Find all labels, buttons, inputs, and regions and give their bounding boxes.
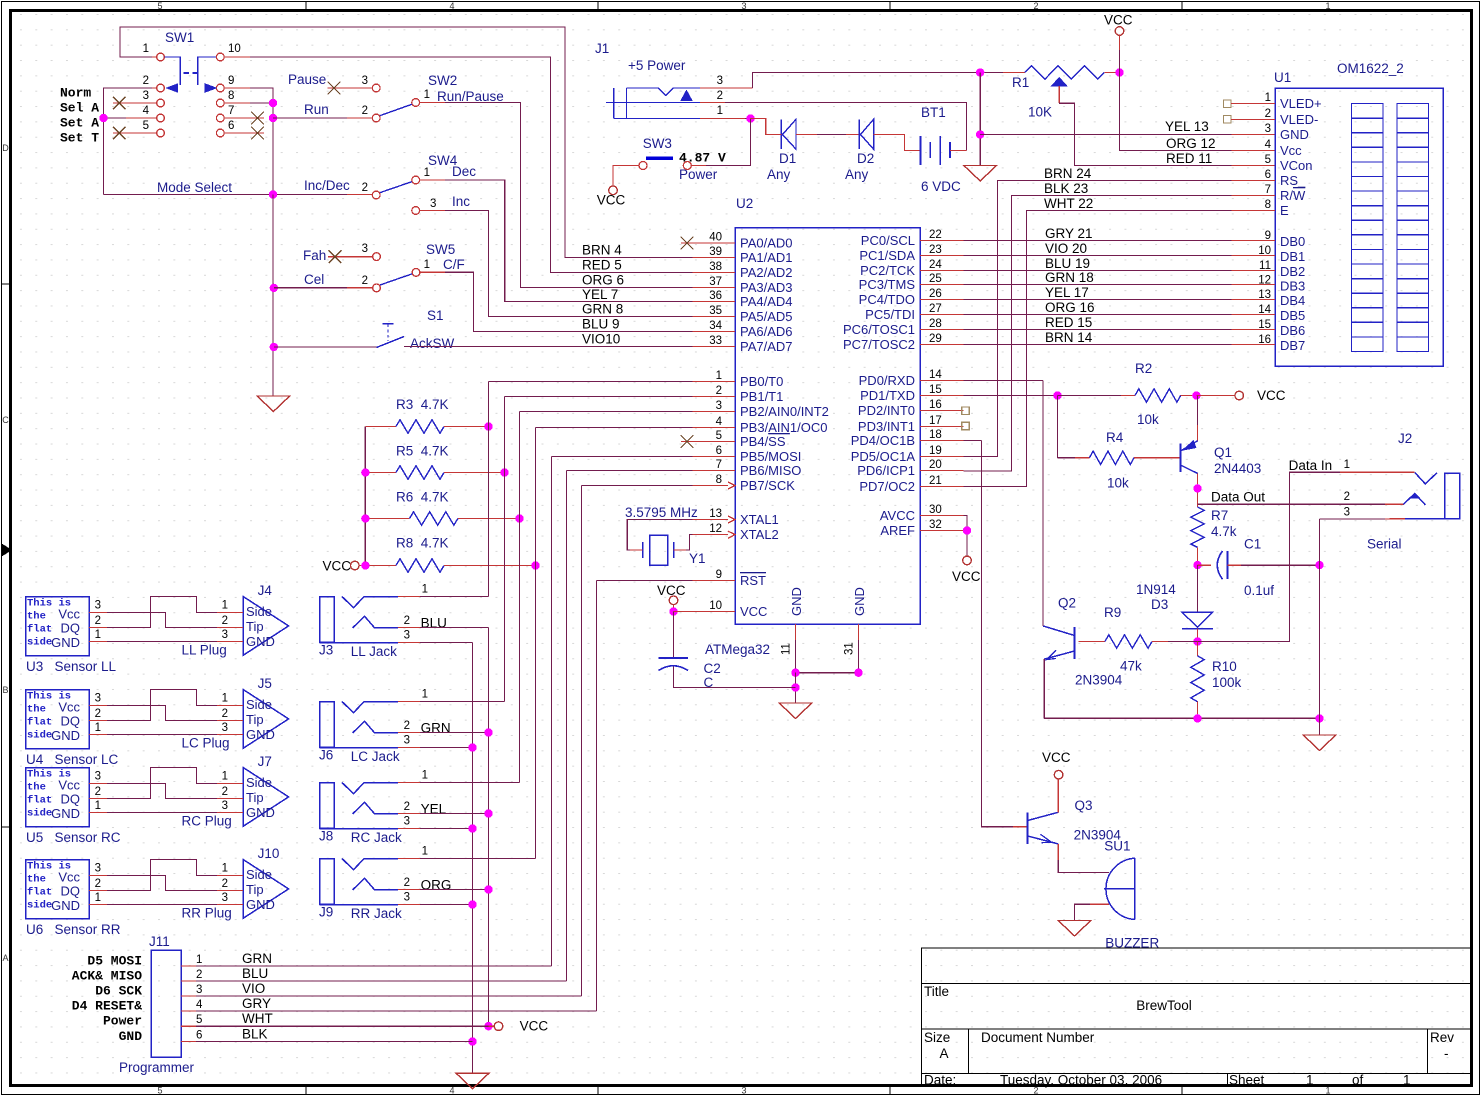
svg-text:YEL 17: YEL 17	[1045, 285, 1089, 300]
svg-text:Vcc: Vcc	[58, 607, 80, 622]
wire J11 pin3 to U2 pin8 (SCK)	[582, 485, 693, 487]
wire J6 pin2 to detect bus	[420, 732, 489, 734]
svg-text:2: 2	[95, 708, 101, 720]
svg-text:1: 1	[422, 846, 428, 858]
svg-text:SU1: SU1	[1104, 839, 1130, 854]
svg-text:side: side	[27, 808, 52, 820]
junction	[468, 743, 476, 751]
svg-text:PA5/AD5: PA5/AD5	[740, 309, 793, 324]
ground	[779, 703, 812, 719]
junction	[976, 68, 984, 76]
switch S1 pushbutton	[377, 337, 405, 348]
svg-text:Vcc: Vcc	[58, 778, 80, 793]
svg-text:VCC: VCC	[597, 193, 626, 208]
wire SW2 pin1 to U2 pin37 (ORG6 net)	[420, 102, 445, 104]
svg-text:PA4/AD4: PA4/AD4	[740, 294, 793, 309]
svg-text:Inc/Dec: Inc/Dec	[304, 178, 350, 193]
svg-text:GND: GND	[246, 727, 275, 742]
svg-text:GRY: GRY	[242, 996, 271, 1011]
svg-text:VCC: VCC	[520, 1019, 549, 1034]
junction	[791, 683, 799, 691]
junction	[1053, 391, 1061, 399]
svg-text:RC Jack: RC Jack	[351, 830, 402, 845]
svg-text:2: 2	[404, 720, 410, 732]
svg-text:DB3: DB3	[1280, 279, 1305, 294]
junction	[468, 900, 476, 908]
junction	[484, 885, 492, 893]
wire R1 wiper to U1 VCon	[1059, 103, 1231, 165]
svg-text:A: A	[2, 953, 8, 963]
svg-text:PA6/AD6: PA6/AD6	[740, 324, 793, 339]
U2 pin 17 no-connect square	[962, 422, 969, 429]
svg-text:Cel: Cel	[304, 272, 324, 287]
svg-text:ATMega32: ATMega32	[705, 642, 770, 657]
svg-text:LL Plug: LL Plug	[182, 643, 227, 658]
svg-text:GND: GND	[51, 898, 80, 913]
svg-text:VLED+: VLED+	[1280, 96, 1322, 111]
svg-text:8: 8	[228, 90, 234, 102]
sensor U3 Sensor LL body	[26, 597, 90, 656]
svg-text:1: 1	[716, 370, 722, 382]
switch SW1 rotor arrows	[165, 57, 181, 85]
wire Data Out to J2 pin2	[1198, 503, 1386, 505]
svg-text:YEL 7: YEL 7	[582, 287, 618, 302]
svg-text:3: 3	[741, 1086, 746, 1096]
J11 pin 6 BLK	[181, 1041, 196, 1043]
wire SW1 left branch	[104, 88, 153, 195]
svg-text:1: 1	[424, 259, 430, 271]
junction	[1193, 714, 1201, 722]
svg-text:PB0/T0: PB0/T0	[740, 374, 783, 389]
svg-text:C: C	[2, 415, 9, 425]
svg-text:PD5/OC1A: PD5/OC1A	[851, 449, 916, 464]
svg-text:1: 1	[95, 892, 101, 904]
svg-text:Tip: Tip	[246, 712, 264, 727]
svg-text:2: 2	[1265, 108, 1271, 120]
J11 pin 5 WHT	[181, 1025, 196, 1027]
wire AckSW to U2 pin33 (VIO10 net)	[404, 346, 693, 348]
svg-text:R10: R10	[1212, 659, 1237, 674]
wire U2 to U1 (GRY21 net)	[964, 240, 1232, 242]
svg-text:J8: J8	[319, 829, 333, 844]
svg-text:4: 4	[143, 105, 150, 117]
wire J3 pin2 to detect bus	[420, 627, 489, 629]
sheet zone arrow marker	[2, 544, 11, 556]
svg-text:R9: R9	[1104, 605, 1121, 620]
svg-text:BRN 4: BRN 4	[582, 243, 622, 258]
svg-text:DB1: DB1	[1280, 249, 1305, 264]
svg-text:Tip: Tip	[246, 882, 264, 897]
svg-text:side: side	[27, 900, 52, 912]
svg-text:5: 5	[157, 1086, 162, 1096]
svg-text:WHT 22: WHT 22	[1044, 196, 1093, 211]
svg-text:J3: J3	[319, 643, 333, 658]
svg-text:R2: R2	[1135, 361, 1152, 376]
power VCC at AREF	[963, 556, 972, 565]
svg-text:D3: D3	[1151, 597, 1168, 612]
svg-text:PD6/ICP1: PD6/ICP1	[857, 463, 915, 478]
svg-text:3: 3	[95, 863, 101, 875]
junction	[484, 1022, 492, 1030]
svg-text:Vcc: Vcc	[58, 700, 80, 715]
svg-text:19: 19	[929, 445, 942, 457]
switch SW1 gang dashes	[184, 72, 190, 74]
wire J11 pin2 to U2 pin7 (MISO)	[567, 470, 693, 472]
svg-text:flat: flat	[27, 717, 52, 729]
svg-text:DB2: DB2	[1280, 264, 1305, 279]
wire VCC to U2 pin10	[674, 611, 693, 613]
svg-text:D: D	[2, 143, 9, 153]
ground	[1319, 718, 1321, 735]
svg-text:14: 14	[929, 369, 942, 381]
svg-text:BLU: BLU	[242, 966, 268, 981]
svg-text:R4: R4	[1106, 430, 1124, 445]
svg-text:PD1/TXD: PD1/TXD	[860, 388, 915, 403]
svg-text:ORG: ORG	[421, 878, 452, 893]
svg-text:23: 23	[929, 244, 942, 256]
wire buzzer to ground	[1090, 903, 1109, 905]
svg-text:RR Jack: RR Jack	[351, 906, 402, 921]
wire Q1 collector to Data Out node	[1197, 474, 1199, 505]
svg-text:3: 3	[404, 630, 410, 642]
svg-text:U5 Sensor RC: U5 Sensor RC	[26, 830, 121, 845]
svg-text:GND: GND	[246, 897, 275, 912]
wire U2 to U1 (ORG16 net)	[964, 314, 1232, 316]
jack J3 LL Jack	[320, 597, 335, 643]
svg-text:Q1: Q1	[1214, 445, 1232, 460]
svg-text:A: A	[939, 1046, 948, 1061]
wire Fah with no-connect	[328, 256, 372, 258]
wire J1 pin2 to BT1	[725, 103, 967, 151]
svg-text:BT1: BT1	[921, 105, 946, 120]
svg-text:S1: S1	[427, 308, 444, 323]
junction	[270, 284, 278, 292]
wire R1 right to VCC	[1104, 72, 1119, 74]
svg-text:100k: 100k	[1212, 675, 1242, 690]
svg-text:3: 3	[95, 771, 101, 783]
wire J11 pin4 to U2 pin9 (RST)	[597, 580, 693, 582]
wire SW5 pin1 to U2 pin34 (BLU9 net)	[420, 271, 445, 273]
junction	[531, 561, 539, 569]
svg-text:RED 11: RED 11	[1166, 151, 1212, 166]
svg-text:LC Jack: LC Jack	[351, 749, 400, 764]
svg-text:BLK: BLK	[242, 1027, 268, 1042]
svg-text:GND: GND	[119, 1029, 143, 1044]
svg-text:XTAL2: XTAL2	[740, 527, 779, 542]
junction	[1315, 561, 1323, 569]
wire Y1 to XTAL1	[627, 520, 692, 551]
svg-text:2: 2	[717, 90, 723, 102]
svg-text:D4 RESET&: D4 RESET&	[72, 999, 142, 1014]
svg-text:ORG 12: ORG 12	[1166, 136, 1216, 151]
wire J11 pin1 to U2 pin6 (MOSI)	[552, 456, 693, 458]
svg-text:of: of	[1352, 1073, 1364, 1088]
svg-text:17: 17	[929, 415, 942, 427]
wire U2 to U1 (RED15 net)	[964, 329, 1232, 331]
svg-text:2: 2	[95, 878, 101, 890]
svg-text:2: 2	[95, 615, 101, 627]
svg-text:PB4/SS: PB4/SS	[740, 434, 786, 449]
wire J1 pin1 junction	[745, 118, 751, 120]
svg-text:J6: J6	[319, 748, 333, 763]
wire U2 pin1 net (PB0) to J3 pin1	[489, 381, 693, 383]
svg-text:1: 1	[222, 771, 228, 783]
wire U2 pin15 to R2	[964, 395, 1058, 397]
svg-text:Mode Select: Mode Select	[157, 180, 232, 195]
svg-text:22: 22	[929, 229, 942, 241]
svg-text:10: 10	[228, 43, 241, 55]
svg-text:2: 2	[404, 615, 410, 627]
svg-text:30: 30	[929, 504, 942, 516]
wire GND rail	[796, 672, 859, 674]
svg-text:1: 1	[424, 89, 430, 101]
svg-text:PD7/OC2: PD7/OC2	[859, 479, 915, 494]
svg-text:VCC: VCC	[1104, 13, 1133, 28]
svg-text:Side: Side	[246, 775, 272, 790]
svg-text:GND: GND	[852, 587, 867, 616]
svg-text:10K: 10K	[1028, 105, 1052, 120]
junction	[468, 824, 476, 832]
svg-text:PA0/AD0: PA0/AD0	[740, 236, 793, 251]
svg-text:4: 4	[449, 1, 454, 11]
svg-text:B: B	[2, 685, 8, 695]
junction	[1192, 391, 1200, 399]
U1 pin 2 no-connect square and stub	[1224, 116, 1232, 124]
svg-text:10k: 10k	[1107, 476, 1129, 491]
svg-text:PB2/AIN0/INT2: PB2/AIN0/INT2	[740, 404, 829, 419]
svg-text:GRY 21: GRY 21	[1045, 226, 1093, 241]
title block	[922, 948, 1472, 1086]
svg-text:Norm: Norm	[60, 86, 91, 101]
svg-text:3: 3	[95, 600, 101, 612]
junction	[361, 514, 369, 522]
svg-text:R7: R7	[1211, 508, 1228, 523]
svg-text:Rev: Rev	[1430, 1030, 1454, 1045]
svg-text:D1: D1	[779, 151, 796, 166]
junction	[484, 728, 492, 736]
svg-text:PB5/MOSI: PB5/MOSI	[740, 449, 801, 464]
svg-text:R8 4.7K: R8 4.7K	[396, 536, 449, 551]
svg-text:side: side	[27, 730, 52, 742]
svg-text:GND: GND	[51, 728, 80, 743]
svg-text:GND: GND	[789, 587, 804, 616]
svg-text:Any: Any	[767, 167, 791, 182]
svg-text:7: 7	[716, 459, 722, 471]
ground	[257, 396, 290, 412]
svg-text:4: 4	[1265, 139, 1272, 151]
svg-text:the: the	[27, 874, 46, 886]
svg-text:1: 1	[222, 863, 228, 875]
svg-text:Pause: Pause	[288, 72, 326, 87]
svg-text:10k: 10k	[1137, 412, 1159, 427]
svg-text:R5 4.7K: R5 4.7K	[396, 444, 449, 459]
junction	[361, 561, 369, 569]
junction	[746, 114, 754, 122]
junction	[1115, 68, 1123, 76]
svg-text:the: the	[27, 782, 46, 794]
junction	[854, 669, 862, 677]
junction	[669, 607, 677, 615]
wire J11 pin5 Power to VCC	[196, 1025, 489, 1027]
svg-text:1: 1	[1265, 92, 1271, 104]
svg-text:DQ: DQ	[61, 792, 81, 807]
svg-text:J4: J4	[258, 583, 273, 598]
svg-text:28: 28	[929, 318, 942, 330]
svg-text:ORG 16: ORG 16	[1045, 300, 1095, 315]
svg-text:1: 1	[422, 584, 428, 596]
svg-text:Run: Run	[304, 102, 329, 117]
svg-text:LC Plug: LC Plug	[182, 736, 230, 751]
sensor U5 Sensor RC body	[26, 768, 90, 827]
svg-text:VCC: VCC	[322, 559, 351, 574]
svg-text:RST: RST	[740, 573, 766, 588]
svg-text:GND: GND	[51, 806, 80, 821]
svg-text:YEL: YEL	[421, 802, 447, 817]
svg-text:J5: J5	[258, 676, 272, 691]
ground	[1058, 921, 1091, 937]
connector J1 power jack symbol	[606, 88, 700, 119]
svg-text:2: 2	[716, 385, 722, 397]
svg-text:SW5: SW5	[426, 242, 455, 257]
junction	[269, 114, 277, 122]
junction	[270, 343, 278, 351]
svg-text:AVCC: AVCC	[880, 508, 915, 523]
svg-text:R1: R1	[1012, 75, 1029, 90]
svg-text:BRN 24: BRN 24	[1044, 166, 1092, 181]
svg-text:C/F: C/F	[443, 257, 465, 272]
svg-text:Side: Side	[246, 697, 272, 712]
wire BT1 to J1 pin2 net	[950, 150, 967, 152]
wire J1 pin3 up to +5 rail	[753, 73, 1004, 89]
svg-text:3: 3	[1344, 507, 1350, 519]
wire SW4 pin1 to U2 pin36 (YEL7 net)	[420, 179, 445, 181]
svg-text:2: 2	[1033, 1, 1038, 11]
wire AckSW left	[274, 346, 377, 348]
svg-text:Fah: Fah	[303, 248, 326, 263]
svg-text:RR Plug: RR Plug	[182, 906, 232, 921]
svg-text:Q3: Q3	[1075, 798, 1093, 813]
svg-text:ACK& MISO: ACK& MISO	[72, 969, 142, 984]
svg-text:12: 12	[709, 523, 722, 535]
junction	[791, 669, 799, 677]
wire J6 pin3 to ground bus	[420, 747, 473, 749]
wire U2 pin19 to U1 pin6 (BRN24 net)	[964, 181, 1232, 457]
svg-text:2N3904: 2N3904	[1075, 673, 1123, 688]
svg-text:J9: J9	[319, 905, 333, 920]
wire ground rail to U1 GND pin	[980, 134, 1231, 136]
svg-text:J10: J10	[258, 846, 280, 861]
wire U3 Vcc to J4 pin2	[107, 613, 217, 628]
svg-text:1: 1	[222, 693, 228, 705]
svg-text:U1: U1	[1274, 70, 1291, 85]
svg-text:PC7/TOSC2: PC7/TOSC2	[843, 337, 915, 352]
svg-text:GND: GND	[1280, 127, 1309, 142]
svg-text:R3 4.7K: R3 4.7K	[396, 397, 449, 412]
wire SW1 pin1 to U2 pin39 (BRN4 net)	[120, 27, 700, 258]
svg-text:PC2/TCK: PC2/TCK	[860, 263, 915, 278]
svg-text:U4 Sensor LC: U4 Sensor LC	[26, 752, 119, 767]
svg-text:1: 1	[143, 43, 149, 55]
svg-text:33: 33	[709, 335, 722, 347]
junction	[1193, 561, 1201, 569]
svg-text:Y1: Y1	[689, 551, 706, 566]
svg-text:GND: GND	[246, 805, 275, 820]
wire U6 DQ to J10 pin1	[107, 860, 217, 891]
svg-text:2: 2	[404, 877, 410, 889]
wire jack ground bus	[472, 643, 474, 1074]
svg-text:1: 1	[424, 167, 430, 179]
wire J3 pin1 to U2	[420, 596, 489, 598]
wire U2 pin3 net (PB2) to J8 pin1	[520, 411, 693, 413]
connector J11 programmer body	[151, 950, 181, 1057]
svg-text:J7: J7	[258, 754, 272, 769]
wire U2 to U1 (VIO20 net)	[964, 255, 1232, 257]
wire U3 DQ to J4 pin1	[107, 597, 217, 628]
svg-text:2: 2	[222, 615, 228, 627]
plug J4 LL Plug	[243, 596, 289, 655]
U2 pin 16 no-connect square	[962, 407, 969, 414]
svg-text:PD2/INT0: PD2/INT0	[858, 403, 915, 418]
wire VCC down to U1 Vcc pin	[1120, 73, 1232, 151]
svg-text:Vcc: Vcc	[1280, 143, 1302, 158]
wire U5 DQ to J7 pin1	[107, 768, 217, 799]
svg-text:18: 18	[929, 429, 942, 441]
svg-text:7: 7	[228, 105, 234, 117]
svg-text:3.5795 MHz: 3.5795 MHz	[625, 505, 698, 520]
svg-text:27: 27	[929, 303, 942, 315]
svg-text:39: 39	[709, 246, 722, 258]
wire J11 pin6 GND to ground bus	[196, 1041, 473, 1043]
svg-text:BLU: BLU	[421, 616, 447, 631]
svg-text:5: 5	[143, 120, 149, 132]
svg-text:10: 10	[709, 600, 722, 612]
svg-text:Date:: Date:	[924, 1073, 956, 1088]
svg-text:6: 6	[196, 1030, 202, 1042]
svg-text:Serial: Serial	[1367, 537, 1402, 552]
svg-text:J2: J2	[1398, 431, 1412, 446]
svg-text:-: -	[1444, 1046, 1449, 1061]
svg-text:25: 25	[929, 273, 942, 285]
svg-text:D5 MOSI: D5 MOSI	[87, 954, 142, 969]
svg-text:D6 SCK: D6 SCK	[95, 984, 142, 999]
wire U4 GND to J5 pin3	[107, 734, 217, 736]
wire AVCC-AREF to VCC	[964, 516, 968, 557]
svg-text:1: 1	[1325, 1086, 1330, 1096]
svg-text:flat: flat	[27, 624, 52, 636]
junction	[1193, 484, 1201, 492]
svg-text:flat: flat	[27, 795, 52, 807]
svg-text:3: 3	[222, 800, 228, 812]
svg-text:Sel A: Sel A	[60, 101, 99, 116]
svg-text:6: 6	[716, 445, 722, 457]
svg-text:PC3/TMS: PC3/TMS	[859, 277, 916, 292]
svg-text:36: 36	[709, 290, 722, 302]
svg-text:9: 9	[716, 569, 722, 581]
svg-text:16: 16	[929, 399, 942, 411]
svg-text:38: 38	[709, 261, 722, 273]
svg-text:DB4: DB4	[1280, 293, 1305, 308]
wire SW1 right bus	[250, 88, 273, 195]
wire J6 pin1 to U2	[420, 701, 505, 703]
svg-text:+5 Power: +5 Power	[628, 58, 686, 73]
svg-text:VIO: VIO	[242, 981, 265, 996]
junction	[269, 190, 277, 198]
wire U2 pin20 to U1 pin7 (BLK23 net)	[964, 196, 1232, 472]
svg-text:VLED-: VLED-	[1280, 112, 1318, 127]
svg-text:PA1/AD1: PA1/AD1	[740, 250, 793, 265]
junction	[99, 114, 107, 122]
svg-text:1: 1	[95, 629, 101, 641]
